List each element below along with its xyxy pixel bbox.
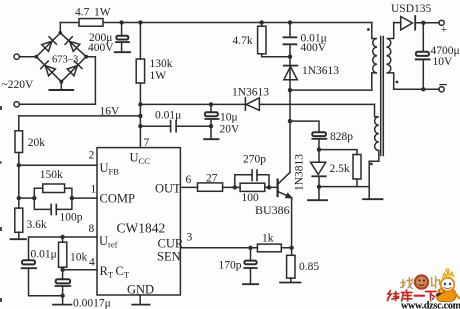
watermark glyph pian bbox=[432, 277, 440, 289]
svg-text:1: 1 bbox=[91, 184, 97, 196]
ground: 10u bbox=[204, 138, 219, 140]
transformer T1 primary bbox=[372, 23, 377, 91]
svg-text:1N3613: 1N3613 bbox=[302, 65, 339, 77]
svg-text:150k: 150k bbox=[40, 169, 63, 181]
svg-text:400V: 400V bbox=[88, 42, 114, 54]
transformer core bbox=[381, 37, 384, 156]
wire: snubber bottom bbox=[262, 56, 290, 58]
resistor 100 bbox=[240, 183, 265, 191]
capacitor 270p branch bbox=[235, 175, 269, 188]
terminal: AC input upper bbox=[14, 54, 19, 59]
svg-text:4: 4 bbox=[89, 257, 95, 269]
svg-text:130k: 130k bbox=[150, 58, 173, 70]
svg-text:20k: 20k bbox=[28, 137, 46, 149]
capacitor 100p plates bbox=[51, 204, 56, 214]
svg-text:1k: 1k bbox=[262, 233, 274, 245]
ground: bridge bbox=[50, 89, 74, 91]
svg-text:7: 7 bbox=[144, 137, 150, 149]
wire: pin 2 UFB bbox=[19, 164, 97, 166]
capacitor 270p plates bbox=[252, 170, 257, 180]
terminal: output positive bbox=[439, 20, 444, 25]
capacitor 10u 20V bbox=[210, 104, 212, 138]
wire: 130k top lead bbox=[139, 23, 141, 60]
svg-text:2.5k: 2.5k bbox=[330, 163, 350, 175]
capacitor 200u 400V lead bbox=[121, 23, 123, 52]
ground: IC GND bbox=[132, 304, 149, 306]
capacitor 828p bbox=[312, 132, 326, 136]
transformer feedback winding bbox=[369, 104, 379, 198]
transistor BU386 collector bbox=[279, 172, 290, 183]
bridge diode bottom-left bbox=[45, 66, 55, 76]
wire: pin 1 COMP bbox=[72, 197, 97, 199]
svg-text:1N3613: 1N3613 bbox=[232, 87, 269, 99]
resistor 130k 1W bbox=[136, 59, 144, 83]
resistor 3.6k bbox=[15, 208, 23, 232]
wire: 0.01u branch bbox=[140, 125, 211, 127]
svg-text:6: 6 bbox=[186, 174, 192, 186]
svg-text:170p: 170p bbox=[219, 260, 242, 272]
resistor 27 bbox=[198, 183, 223, 191]
svg-text:1N3813: 1N3813 bbox=[294, 154, 306, 191]
svg-text:0.0017μ: 0.0017μ bbox=[73, 298, 111, 309]
wire: OUT pin 6 bbox=[180, 186, 234, 188]
wire: 2.5k bottom rail bbox=[319, 179, 369, 187]
watermark badge circle bbox=[413, 274, 429, 290]
svg-text:~220V: ~220V bbox=[2, 79, 34, 91]
resistor 20k bbox=[15, 131, 23, 153]
wire: 16V rail bbox=[19, 115, 141, 117]
svg-text:400V: 400V bbox=[301, 42, 327, 54]
wire: 100p branch bbox=[34, 198, 72, 209]
resistor 4.7 1W bbox=[79, 19, 103, 27]
watermark text weiku (drawn strokes) bbox=[388, 290, 437, 301]
capacitor 170p bbox=[250, 248, 252, 284]
transistor BU386 emitter bbox=[279, 192, 292, 198]
transformer secondary bbox=[387, 23, 394, 90]
svg-text:0.85: 0.85 bbox=[299, 261, 319, 273]
watermark bbox=[388, 269, 460, 309]
capacitor 0.01u left bbox=[22, 260, 35, 264]
svg-text:20V: 20V bbox=[220, 124, 241, 136]
svg-text:10k: 10k bbox=[70, 252, 88, 264]
resistor 1k bbox=[257, 244, 281, 252]
terminal: output negative bbox=[439, 87, 444, 92]
ground: 0.85 bbox=[280, 282, 300, 284]
diode 1N3613 vertical bbox=[284, 65, 298, 67]
svg-text:3.6k: 3.6k bbox=[27, 219, 47, 231]
wire: left bias rail bbox=[18, 116, 20, 239]
svg-text:3: 3 bbox=[187, 232, 193, 244]
svg-text:OUT: OUT bbox=[155, 182, 181, 196]
svg-text:4.7 1W: 4.7 1W bbox=[75, 7, 111, 19]
wire: bridge bottom lead bbox=[60, 82, 62, 90]
op-amp U1 CW1842 box bbox=[97, 148, 180, 295]
bridge diode bottom-right bbox=[67, 66, 77, 76]
svg-text:10μ: 10μ bbox=[220, 112, 238, 124]
ground: Uref filter bbox=[53, 304, 71, 306]
wire: emitter lead bbox=[291, 198, 293, 256]
bridge diode top-left bbox=[42, 41, 52, 51]
resistor 10k bbox=[62, 237, 64, 279]
svg-text:CUR: CUR bbox=[158, 237, 184, 251]
wire: output negative rail bbox=[394, 88, 439, 90]
ground: 200u bbox=[115, 51, 131, 53]
watermark glyph zhao bbox=[401, 278, 413, 289]
wire: base network bbox=[235, 186, 277, 188]
wire: GND pin lead bbox=[139, 295, 141, 304]
wire: collector bus bbox=[289, 57, 291, 173]
bridge diode top-right bbox=[70, 41, 80, 51]
svg-text:SEN: SEN bbox=[157, 250, 181, 264]
wire: 2.5k top bbox=[319, 150, 357, 155]
ground: 1N3813 bbox=[308, 199, 327, 201]
wire: primary return bbox=[290, 89, 372, 91]
svg-text:27: 27 bbox=[206, 173, 218, 185]
capacitor 0.0017u bbox=[56, 279, 70, 283]
wire: 150k branch bbox=[34, 188, 72, 198]
svg-text:100p: 100p bbox=[60, 212, 83, 224]
resistor 4.7k bbox=[261, 23, 263, 57]
svg-text:673–3: 673–3 bbox=[52, 55, 78, 66]
terminal: AC input lower bbox=[14, 102, 19, 107]
wire: aux supply node to diode 1N3613 bbox=[140, 103, 374, 105]
svg-text:2: 2 bbox=[89, 150, 95, 162]
ground: 170p bbox=[243, 283, 258, 285]
wire: pin 4 RtCt bbox=[63, 269, 97, 271]
scan artifacts left edge bbox=[0, 106, 2, 110]
wire: CUR SEN pin 3 bbox=[180, 247, 291, 249]
svg-text:828p: 828p bbox=[330, 131, 353, 143]
wire: 828p branch bbox=[290, 121, 319, 132]
svg-text:1W: 1W bbox=[150, 70, 167, 82]
wire: bridge top lead bbox=[59, 23, 61, 33]
svg-text:16V: 16V bbox=[100, 106, 121, 118]
capacitor 4700u 10V bbox=[422, 23, 424, 90]
wire: top DC rail bbox=[60, 22, 372, 24]
ground: 3.6k bbox=[11, 238, 26, 240]
svg-text:UCC: UCC bbox=[130, 151, 151, 167]
bridge rectifier 673-3 diamond bbox=[36, 33, 86, 82]
svg-text:USD135: USD135 bbox=[391, 3, 432, 15]
svg-text:UFB: UFB bbox=[100, 161, 120, 177]
capacitor 0.01u plates bbox=[171, 121, 177, 132]
wire: pin 8 Uref bbox=[29, 237, 98, 260]
wire: lower AC lead bbox=[19, 57, 95, 105]
svg-text:www.dzsc.com: www.dzsc.com bbox=[401, 301, 460, 309]
resistor 150k bbox=[43, 184, 65, 193]
capacitor 200u 400V plates bbox=[116, 36, 128, 40]
watermark mascot bbox=[436, 289, 456, 302]
diode USD135 bbox=[394, 22, 439, 24]
wire: 1N3813 to ground bbox=[318, 187, 320, 200]
wire: upper AC lead bbox=[19, 56, 36, 58]
resistor 2.5k bbox=[353, 155, 361, 180]
wire: Ucc vertical to pin 7 bbox=[139, 83, 141, 148]
wire: COMP network left bbox=[19, 197, 35, 199]
svg-text:8: 8 bbox=[89, 223, 95, 235]
svg-text:COMP: COMP bbox=[100, 192, 135, 206]
ground: feedback winding bbox=[363, 198, 382, 200]
svg-text:RT CT: RT CT bbox=[100, 264, 130, 280]
svg-text:10V: 10V bbox=[433, 56, 454, 68]
IC pin names bbox=[99, 151, 184, 297]
svg-text:270p: 270p bbox=[243, 154, 266, 166]
diode 1N3613 horizontal bbox=[245, 98, 259, 111]
transformer phase dots bbox=[367, 28, 370, 31]
svg-text:+: + bbox=[441, 22, 448, 36]
diode 1N3813 bbox=[318, 150, 320, 187]
svg-text:4.7k: 4.7k bbox=[233, 35, 253, 47]
svg-text:Uref: Uref bbox=[99, 234, 118, 250]
svg-text:GND: GND bbox=[127, 283, 154, 297]
svg-text:0.01μ: 0.01μ bbox=[155, 110, 181, 122]
svg-text:BU386: BU386 bbox=[255, 203, 290, 217]
svg-text:CW1842: CW1842 bbox=[117, 221, 166, 236]
capacitor 0.01u 400V bbox=[289, 23, 291, 57]
svg-text:0.01μ: 0.01μ bbox=[31, 249, 57, 261]
resistor 0.85 bbox=[287, 255, 295, 278]
transistor Q1 BU386 base bar bbox=[277, 180, 279, 196]
minus mark bbox=[440, 84, 446, 86]
